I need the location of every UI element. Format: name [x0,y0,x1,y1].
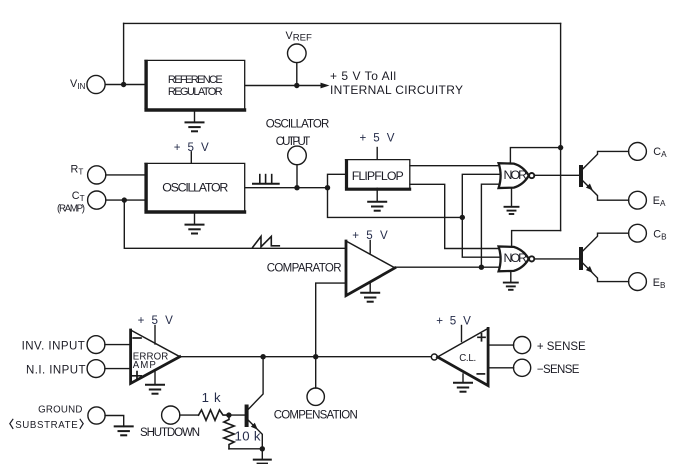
svg-text:+ 5 V To All: + 5 V To All [330,69,396,83]
ground (comparator) [361,282,379,302]
wire to flip-flop clock [328,174,346,187]
wire blanking rail down [328,188,463,218]
svg-text:NOR: NOR [504,168,528,182]
wire -SENSE [488,367,513,369]
NOR gate B [499,247,535,272]
plus mark (CL) [478,334,485,341]
junction emitter ground node [260,446,265,451]
svg-text:OSCILLATOR: OSCILLATOR [162,180,228,194]
junction oscillator branch node [325,185,330,190]
junction VIN node [121,82,126,87]
svg-text:+ 5 V: + 5 V [138,314,174,327]
svg-text:REGULATOR: REGULATOR [168,86,223,98]
resistor R2 10k [224,415,234,449]
svg-text:INV. INPUT: INV. INPUT [22,341,85,353]
transistor Q1 shutdown [245,357,264,449]
wire CT ramp to comparator input [124,200,346,248]
pin -SENSE [514,359,531,376]
wire NOR B output to QB base [534,258,579,260]
svg-text:COMPARATOR: COMPARATOR [267,263,342,275]
current limit amp CL [431,328,488,385]
ground (NOR B) [504,271,518,290]
block flip-flop [345,159,411,189]
wire shutdown to 1k [180,414,199,416]
pulse waveform symbol [253,175,279,184]
ground (error amp) [146,370,164,394]
pin CB [629,224,647,242]
+5V tick (error amp) [154,326,156,345]
wire branch to NOR B top [512,231,561,248]
svg-text:REFERENCE: REFERENCE [168,74,223,86]
junction compensation node [313,354,318,359]
ground (shutdown transistor) [254,449,271,464]
svg-text:FLIPFLOP: FLIPFLOP [352,169,404,183]
wire blanking to NOR B middle input [462,217,506,257]
junction VREF node [294,83,299,88]
ground (flip-flop) [368,188,386,210]
bracket left (substrate) [10,419,13,429]
svg-text:C.L.: C.L. [459,353,476,364]
wire oscillator output pin stem [296,165,298,188]
pin SHUTDOWN [162,406,180,424]
svg-text:COMPENSATION: COMPENSATION [274,409,358,421]
transistor QA [579,151,629,200]
junction comparator output node [479,265,484,270]
svg-text:SUBSTRATE: SUBSTRATE [15,420,78,431]
pin RT [88,166,106,184]
svg-text:VREF: VREF [286,30,313,44]
svg-text:−SENSE: −SENSE [537,364,580,376]
wire right side drop to NOR gates [560,23,562,230]
pin N.I. INPUT [87,360,105,378]
wire emitter to 10k bottom [229,448,262,450]
wire ground pin [105,416,124,427]
pin GROUND (SUBSTRATE) [88,407,105,424]
wire +SENSE [488,344,513,346]
wire compensation stem [315,357,317,388]
wire VIN to top rail [123,23,125,84]
svg-text:+ 5 V: + 5 V [174,141,209,154]
transistor QB [579,233,629,281]
ground (CL) [454,374,472,392]
junction CT ramp node [122,197,127,202]
pin EA [629,191,647,209]
wire flip-flop Q to NOR A top input [410,165,503,167]
wire NI input [105,368,131,370]
wire top rail from VIN to right side [124,22,561,24]
wire base [229,414,245,416]
wire NOR A output to QA base [534,174,579,176]
NOR gate A [499,163,535,188]
pin EB [629,273,647,291]
pin COMPENSATION [307,388,324,405]
svg-text:+ 5 V: + 5 V [436,315,471,328]
ground (reference regulator) [186,110,204,131]
block reference regulator [144,60,246,110]
svg-text:10 k: 10 k [235,428,261,443]
svg-text:NOR: NOR [504,251,528,265]
svg-text:+ 5 V: + 5 V [352,229,388,242]
svg-text:1 k: 1 k [202,390,221,405]
svg-text:OSCILLATOR: OSCILLATOR [266,119,330,131]
wire flip-flop Qbar to NOR B top input [410,184,503,248]
wire RT to oscillator [106,174,146,176]
svg-text:OUTPUT: OUTPUT [276,136,311,148]
bracket right (substrate) [80,419,83,429]
svg-text:+ SENSE: + SENSE [537,341,586,353]
wire CT to oscillator [106,199,146,201]
junction shutdown collector node [260,354,265,359]
wire VIN to reference regulator [105,84,144,86]
plus mark (error amp) [133,372,141,380]
pin +SENSE [514,337,531,354]
error amp U2 [131,330,180,383]
ground (substrate pin) [115,426,133,435]
pin CT [88,191,106,209]
junction oscillator output node [294,185,299,190]
pin INV. INPUT [87,336,105,354]
pin CA [629,143,647,161]
junction on right drop [558,145,563,150]
wire INV input [105,344,131,346]
ground (NOR A) [505,188,519,214]
minus mark (error amp) [133,337,141,339]
svg-text:GROUND: GROUND [38,405,82,416]
wire reference regulator output with arrow [245,85,321,87]
wire comparator bottom input [316,283,346,357]
wire error amp output [180,356,432,358]
comparator U1 [346,241,395,296]
ground (oscillator) [186,212,204,234]
wire blanking to NOR A middle input [462,174,506,217]
wire comparator output to NOR A bottom input [481,184,503,267]
junction shutdown base node [226,412,231,417]
+5V tick (CL) [461,326,463,342]
svg-text:AMP: AMP [133,360,156,371]
pin VIN [87,75,105,93]
wire comparator output [395,266,506,268]
svg-text:SHUTDOWN: SHUTDOWN [140,427,200,439]
wire oscillator output [245,187,327,189]
svg-text:(RAMP): (RAMP) [57,203,85,214]
wire branch to NOR A top [510,148,560,165]
svg-text:N.I. INPUT: N.I. INPUT [26,365,86,377]
block oscillator [144,163,246,212]
resistor R1 1k [199,410,229,420]
+5V tick (comparator) [369,241,371,254]
junction blanking node [460,215,465,220]
wire VREF stem [296,63,298,86]
sawtooth ramp symbol [253,236,280,247]
minus mark (CL) [477,373,484,375]
+5V tick (oscillator) [190,152,192,163]
svg-text:+ 5 V: + 5 V [360,132,395,145]
svg-text:INTERNAL CIRCUITRY: INTERNAL CIRCUITRY [330,83,463,97]
pin OSCILLATOR OUTPUT [288,146,307,165]
pin VREF [288,44,307,63]
+5V tick (flip-flop) [376,148,378,159]
